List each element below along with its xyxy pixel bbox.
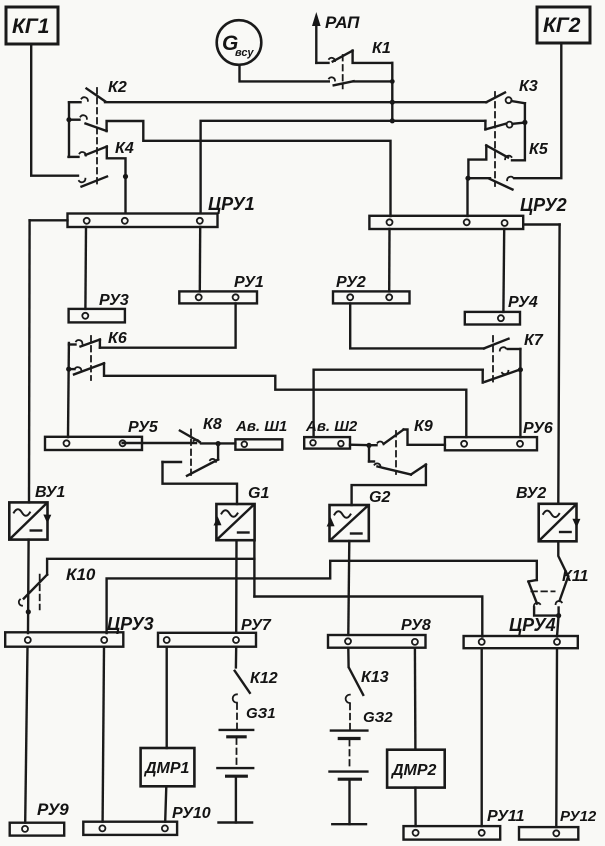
svg-text:РУ2: РУ2	[336, 274, 366, 291]
wire К6 lower output to РУ6 terminal 1	[104, 363, 466, 437]
bus bar Ав.Ш1	[235, 418, 287, 450]
wire РУ5 to К8	[123, 442, 196, 444]
bus bar ЦРУ2	[369, 195, 566, 229]
svg-text:К3: К3	[519, 78, 538, 95]
wire РУ1 to К6 upper contact	[100, 303, 236, 347]
bus bar РУ7	[158, 617, 272, 647]
wire РУ2 to К7 upper contact	[350, 303, 484, 348]
svg-text:G2: G2	[369, 489, 390, 506]
wire ЦРУ1 to РУ1	[199, 227, 202, 291]
bus bar РУ11	[404, 808, 525, 840]
svg-text:КГ2: КГ2	[543, 14, 581, 37]
bus bar РУ5	[45, 419, 159, 450]
svg-text:Ав. Ш1: Ав. Ш1	[235, 418, 287, 435]
svg-text:КГ1: КГ1	[12, 15, 49, 38]
svg-text:РУ8: РУ8	[401, 617, 431, 634]
contactor К6	[69, 330, 127, 380]
svg-text:РУ10: РУ10	[172, 805, 211, 822]
svg-text:РУ5: РУ5	[128, 419, 159, 436]
bus bar РУ9	[10, 800, 70, 836]
rectifier box ВУ1	[9, 484, 65, 540]
switch К13	[346, 648, 389, 703]
wire ЦРУ2 right end to right rail	[523, 223, 559, 225]
contactor К8	[163, 416, 236, 478]
relay box ДМР1	[141, 748, 195, 786]
svg-text:К10: К10	[66, 565, 96, 584]
svg-text:К8: К8	[203, 416, 222, 433]
svg-text:РУ7: РУ7	[241, 617, 272, 634]
bus bar РУ6	[445, 420, 553, 450]
svg-text:ВУ1: ВУ1	[35, 484, 65, 501]
contactor К3	[485, 78, 537, 186]
contactor К11	[528, 568, 588, 618]
stub wire К6 fixed contacts to РУ5	[66, 343, 71, 437]
relay box ДМР2	[387, 750, 445, 788]
wire К2 lower output to ЦРУ2 terminal 1	[107, 121, 391, 216]
rectifier box ВУ2	[516, 485, 580, 541]
wire Gвсу to К1 lower contact	[240, 65, 329, 82]
svg-text:РУ1: РУ1	[234, 274, 264, 291]
wire РУ8 to ДМР2	[414, 648, 417, 750]
svg-text:К9: К9	[414, 418, 433, 435]
generator box G2	[327, 489, 391, 541]
svg-text:РУ12: РУ12	[560, 808, 597, 825]
svg-text:Ав. Ш2: Ав. Ш2	[305, 418, 358, 435]
svg-text:G1: G1	[248, 485, 269, 502]
svg-text:К12: К12	[250, 670, 278, 687]
svg-text:РУ11: РУ11	[487, 808, 525, 825]
wire КГ2 to К5 lower contact	[515, 43, 562, 178]
wire К1 rail to bus junctions	[390, 63, 395, 124]
rail joining К3 outputs to К5	[512, 103, 528, 160]
contactor К10	[19, 565, 96, 609]
wire ДМР2 to РУ11 terminal 1	[414, 788, 417, 827]
svg-text:ЦРУ3: ЦРУ3	[107, 614, 154, 634]
svg-text:РУ3: РУ3	[99, 292, 129, 309]
svg-text:ВУ2: ВУ2	[516, 485, 546, 502]
bus bar РУ8	[328, 617, 431, 648]
wire К8 lower contact to G1	[163, 462, 238, 504]
wire ЦРУ1 to К1 and К3 lower contact	[201, 121, 486, 213]
svg-text:К6: К6	[108, 330, 127, 347]
svg-text:ЦРУ1: ЦРУ1	[208, 194, 255, 214]
APU generator Gвсу	[217, 20, 262, 65]
wire К5 junction to ЦРУ2 terminal 2	[465, 176, 470, 216]
bus bar РУ3	[69, 292, 129, 322]
wire К9 lower contact to G2	[352, 465, 426, 505]
svg-text:GЗ2: GЗ2	[363, 709, 393, 726]
РАП airfield power node with arrow	[312, 12, 360, 63]
wire ЦРУ4 to РУ11 terminal 2	[481, 648, 483, 826]
wire ЦРУ3 terminal 2 to cross-tie	[107, 578, 255, 633]
svg-text:К7: К7	[524, 332, 544, 349]
contactor К5	[468, 141, 548, 190]
wire ЦРУ2 to РУ2	[388, 229, 391, 291]
switch К12	[233, 647, 278, 703]
contactor К7	[483, 332, 544, 386]
generator box G1	[214, 485, 270, 540]
contactor К2	[69, 79, 127, 185]
bus bar РУ1	[179, 274, 264, 303]
right rail ЦРУ2 down to ВУ2	[558, 225, 559, 504]
bus bar ЦРУ4	[464, 615, 578, 648]
svg-text:К1: К1	[372, 40, 391, 57]
svg-text:всу: всу	[235, 47, 254, 59]
wire G1 to РУ7 terminal 2	[235, 540, 238, 633]
bus bar РУ12	[519, 808, 597, 840]
svg-text:К4: К4	[115, 140, 134, 157]
svg-text:РУ9: РУ9	[37, 800, 69, 819]
wire РУ7 to ДМР1	[165, 647, 167, 748]
bus bar Ав.Ш2	[304, 418, 358, 449]
auxiliary wire G1 to cross-tie junctions	[253, 542, 255, 597]
svg-text:ДМР2: ДМР2	[390, 762, 437, 779]
contactor К4	[69, 140, 134, 187]
contactor К1	[316, 40, 392, 88]
wire ЦРУ3 to РУ9	[25, 647, 27, 823]
wire ВУ1 to К10 and ЦРУ3 terminal 1	[26, 540, 31, 633]
svg-text:К11: К11	[562, 568, 589, 585]
bus bar РУ4	[465, 294, 538, 325]
svg-text:ЦРУ4: ЦРУ4	[509, 615, 556, 635]
svg-text:РАП: РАП	[325, 13, 360, 32]
svg-text:К5: К5	[529, 141, 549, 158]
wire ЦРУ4 to РУ12	[555, 648, 558, 827]
svg-text:GЗ1: GЗ1	[246, 705, 276, 722]
wire ДМР1 to РУ10 terminal 2	[165, 786, 166, 821]
wire ВУ2 to К11	[558, 541, 568, 576]
wire К4 output to ЦРУ1 terminal 2	[107, 147, 128, 214]
svg-text:К2: К2	[108, 79, 127, 96]
stub rail joining К2 and К4 fixed contacts	[66, 102, 71, 157]
battery GЗ1	[217, 704, 275, 823]
wire К11 to ЦРУ4 terminal 2	[557, 616, 559, 637]
wire ЦРУ3 to РУ10	[103, 647, 104, 822]
svg-text:ДМР1: ДМР1	[143, 760, 190, 777]
contactor К9	[369, 418, 445, 475]
svg-text:ЦРУ2: ЦРУ2	[520, 195, 567, 215]
bus bar ЦРУ1	[68, 194, 255, 227]
svg-text:К13: К13	[361, 669, 389, 686]
svg-text:РУ6: РУ6	[523, 420, 553, 437]
cross-tie wire К10 to К11	[47, 559, 537, 580]
bus wire К2 to К3	[105, 101, 486, 103]
left rail ЦРУ1 down to ВУ1	[28, 220, 31, 502]
wire К7 fixed side to РУ6 terminal 2	[518, 349, 523, 437]
svg-text:РУ4: РУ4	[508, 294, 538, 311]
wire ЦРУ1 to РУ3	[84, 227, 87, 309]
wire cross-tie to ЦРУ4 terminal 1	[254, 597, 482, 637]
wire ЦРУ2 to РУ4	[502, 229, 505, 312]
bus bar ЦРУ3	[5, 614, 153, 647]
wire G2 to РУ8 terminal 1	[348, 541, 349, 635]
wire ЦРУ1 left end to left rail	[30, 219, 68, 221]
wire Ав.Ш2 to К9	[350, 443, 372, 448]
wire КГ1 to К4 lower contact	[31, 44, 78, 176]
wire К7 lower contact to Ав.Ш2	[314, 370, 483, 437]
generator box КГ1	[6, 7, 58, 44]
generator box КГ2	[537, 7, 590, 43]
bus bar РУ10	[83, 805, 210, 835]
bus bar РУ2	[333, 274, 410, 303]
battery GЗ2	[330, 704, 394, 824]
